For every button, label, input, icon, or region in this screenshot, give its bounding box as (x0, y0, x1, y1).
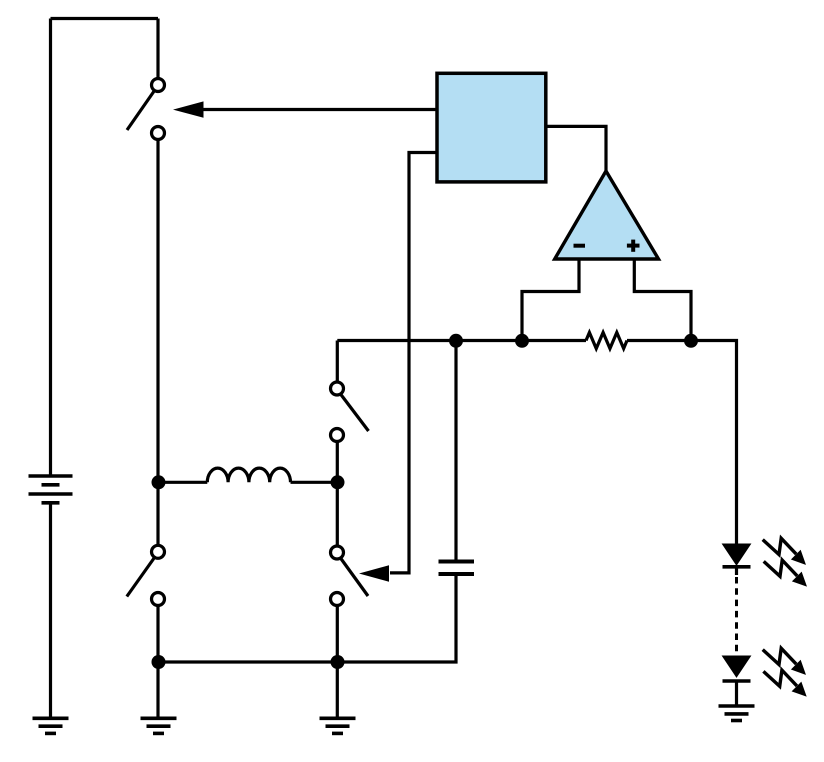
wire: op-amp non-inverting input leg to main line (634, 259, 691, 341)
node B (junction dot, inductor right) (331, 475, 345, 489)
wire: bottom rail from node C to capacitor bottom (159, 576, 457, 662)
wire: block output down to arrow at middle lower switch (390, 153, 437, 573)
op-amp minus label (574, 244, 586, 248)
light arrows of LED 1 (763, 538, 806, 585)
wire: top-left switch down to node A (156, 140, 159, 483)
wire: left rail from top wire down to battery top (49, 19, 52, 477)
ground (battery) (33, 718, 69, 733)
wire: block input from op-amp output (546, 126, 606, 171)
ground (left switch chain) (141, 718, 177, 733)
wire: battery positive to top of switch chain (51, 17, 159, 20)
switch (top middle, SPST open) (331, 382, 369, 442)
node: op-amp inverting tap on main line (515, 334, 529, 348)
ground (middle switch chain) (320, 718, 356, 733)
op-amp plus label (627, 240, 640, 252)
arrow (points at middle lower switch) (359, 565, 389, 581)
wire: dashed link between LED 1 and LED 2 (735, 567, 738, 655)
switch (top left, SPST open) (127, 79, 165, 140)
wire: top-middle switch down to node B (336, 442, 339, 483)
LED 1 (723, 544, 751, 567)
wire: battery negative down to ground (49, 503, 52, 719)
resistor (586, 333, 627, 349)
battery (two cells) (29, 476, 73, 503)
wire: op-amp inverting input leg to main line (522, 259, 579, 341)
node D (junction dot, bottom rail right) (331, 655, 345, 669)
switch (middle lower, SPST open, controlled) (331, 546, 369, 606)
node C (junction dot, bottom rail left) (152, 655, 166, 669)
wire: node C down to ground (156, 662, 159, 718)
node: capacitor tap on main line (449, 334, 463, 348)
node A (junction dot, inductor left) (152, 475, 166, 489)
wire: main horizontal line (left part to resistor) (337, 339, 586, 342)
switch (left lower, SPST open) (127, 545, 165, 605)
wire: LED 2 cathode to ground (735, 681, 738, 706)
control block (437, 73, 546, 182)
wire: node D down to ground (336, 662, 339, 718)
wire: main line corner down to top-middle switch (336, 341, 339, 383)
node: op-amp non-inverting tap on main line (684, 334, 698, 348)
wire: left lower switch down to node C (156, 606, 159, 663)
wire: block output to arrow at top-left switch (201, 108, 437, 111)
capacitor (439, 562, 475, 575)
arrow (points at top-left switch) (173, 101, 204, 117)
LED 2 (723, 656, 751, 681)
op-amp (comparator, triangle) (555, 171, 659, 259)
wire: capacitor top up to main line (454, 341, 457, 560)
wire: node A down to left lower switch (156, 482, 159, 545)
ground (LED chain) (719, 706, 755, 721)
wire: top wire down to top-left switch (156, 19, 159, 79)
wire: main horizontal line (resistor to right corner, down to LED) (627, 341, 737, 546)
light arrows of LED 2 (763, 648, 806, 695)
wire: node B down to middle lower switch (336, 482, 339, 546)
wire: middle lower switch down to node D (336, 606, 339, 663)
inductor (159, 468, 338, 482)
